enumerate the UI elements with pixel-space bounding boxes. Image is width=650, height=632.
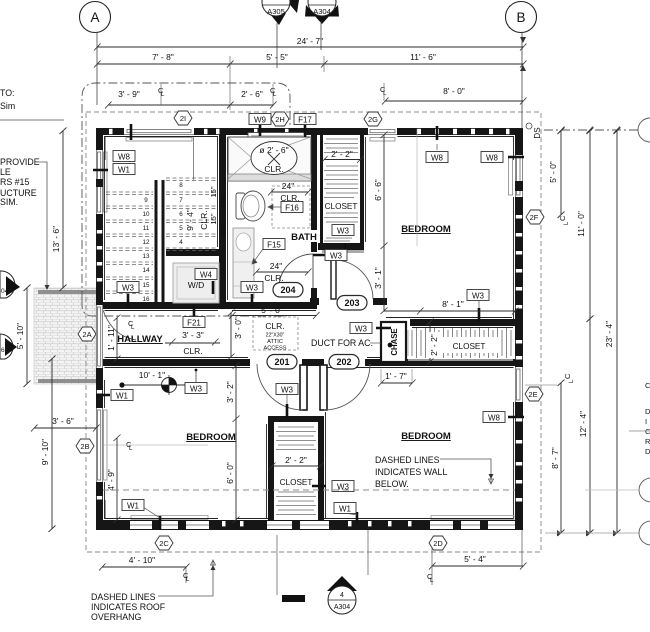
svg-text:16: 16 bbox=[142, 296, 150, 303]
svg-text:CLR.: CLR. bbox=[265, 321, 284, 331]
svg-text:15: 15 bbox=[142, 282, 150, 289]
svg-text:PROVIDE: PROVIDE bbox=[0, 157, 40, 167]
svg-text:8' - 1": 8' - 1" bbox=[442, 299, 464, 309]
svg-text:INDICATES ROOF: INDICATES ROOF bbox=[91, 602, 166, 612]
svg-text:W3: W3 bbox=[246, 284, 259, 293]
svg-text:2G: 2G bbox=[368, 115, 378, 124]
svg-text:W1: W1 bbox=[116, 392, 129, 401]
svg-text:3' - 3": 3' - 3" bbox=[182, 330, 204, 340]
svg-text:4: 4 bbox=[340, 592, 344, 599]
svg-text:DASHED LINES: DASHED LINES bbox=[91, 592, 156, 602]
svg-text:A304: A304 bbox=[313, 7, 331, 16]
svg-text:10: 10 bbox=[142, 211, 150, 218]
svg-text:W8: W8 bbox=[486, 154, 499, 163]
svg-text:W/D: W/D bbox=[188, 280, 205, 290]
svg-text:W3: W3 bbox=[330, 252, 343, 261]
svg-text:5: 5 bbox=[179, 225, 183, 232]
svg-text:BEDROOM: BEDROOM bbox=[401, 224, 451, 235]
svg-text:D: D bbox=[645, 447, 650, 456]
svg-text:4: 4 bbox=[179, 239, 183, 246]
svg-text:CLOSET: CLOSET bbox=[453, 342, 486, 351]
svg-text:INDICATES WALL: INDICATES WALL bbox=[375, 467, 447, 477]
svg-text:13' - 6": 13' - 6" bbox=[51, 226, 61, 252]
svg-text:6' - 6": 6' - 6" bbox=[373, 179, 383, 201]
svg-text:W8: W8 bbox=[118, 153, 131, 162]
svg-text:CLR.: CLR. bbox=[264, 164, 283, 174]
svg-text:D: D bbox=[645, 407, 650, 416]
svg-text:C: C bbox=[645, 381, 650, 390]
svg-text:LE: LE bbox=[0, 167, 11, 177]
svg-text:2' - 2": 2' - 2" bbox=[285, 455, 307, 465]
svg-text:7: 7 bbox=[179, 197, 183, 204]
svg-text:1' - 11": 1' - 11" bbox=[106, 325, 116, 351]
svg-text:F17: F17 bbox=[298, 116, 312, 125]
svg-text:W8: W8 bbox=[431, 154, 444, 163]
svg-text:11: 11 bbox=[143, 225, 150, 232]
svg-text:DUCT FOR AC.: DUCT FOR AC. bbox=[311, 338, 373, 348]
svg-text:A305: A305 bbox=[267, 7, 285, 16]
svg-text:W3: W3 bbox=[190, 385, 203, 394]
svg-text:3' - 2": 3' - 2" bbox=[225, 381, 235, 403]
svg-text:12: 12 bbox=[142, 239, 150, 246]
svg-text:W3: W3 bbox=[337, 227, 350, 236]
svg-text:Sim: Sim bbox=[0, 101, 15, 111]
svg-text:15": 15" bbox=[209, 186, 218, 197]
svg-text:2H: 2H bbox=[275, 115, 285, 124]
svg-text:2' - 2": 2' - 2" bbox=[331, 149, 353, 159]
svg-text:2C: 2C bbox=[159, 539, 169, 548]
svg-text:CLOSET: CLOSET bbox=[325, 202, 358, 211]
svg-text:OVERHANG: OVERHANG bbox=[91, 612, 142, 622]
svg-text:204: 204 bbox=[280, 285, 295, 295]
svg-text:4' - 10": 4' - 10" bbox=[129, 555, 155, 565]
svg-text:RS #15: RS #15 bbox=[0, 177, 29, 187]
svg-text:1' - 7": 1' - 7" bbox=[385, 371, 407, 381]
svg-text:F16: F16 bbox=[285, 204, 299, 213]
svg-text:W4: W4 bbox=[200, 271, 213, 280]
svg-text:R: R bbox=[645, 437, 650, 446]
svg-text:W3: W3 bbox=[472, 292, 485, 301]
svg-text:2E: 2E bbox=[528, 390, 537, 399]
svg-text:5' - 4": 5' - 4" bbox=[464, 554, 486, 564]
svg-text:C: C bbox=[645, 427, 650, 436]
svg-text:W3: W3 bbox=[355, 325, 368, 334]
svg-text:W1: W1 bbox=[118, 166, 131, 175]
svg-text:C: C bbox=[558, 215, 567, 221]
svg-text:MIN.: MIN. bbox=[219, 220, 228, 236]
svg-text:C: C bbox=[563, 373, 572, 379]
svg-text:F21: F21 bbox=[187, 319, 201, 328]
svg-text:24' - 7": 24' - 7" bbox=[297, 36, 323, 46]
svg-text:CHASE: CHASE bbox=[390, 328, 399, 355]
svg-text:BELOW.: BELOW. bbox=[375, 479, 409, 489]
svg-text:CLR.: CLR. bbox=[183, 346, 202, 356]
svg-text:23' - 4": 23' - 4" bbox=[604, 321, 614, 347]
svg-text:BEDROOM: BEDROOM bbox=[401, 431, 451, 442]
svg-text:4' - 9": 4' - 9" bbox=[106, 469, 116, 491]
svg-text:BEDROOM: BEDROOM bbox=[186, 432, 236, 443]
svg-text:11' - 6": 11' - 6" bbox=[410, 52, 436, 62]
svg-text:203: 203 bbox=[344, 298, 359, 308]
svg-text:CLR.: CLR. bbox=[199, 210, 209, 229]
svg-text:5' - 0": 5' - 0" bbox=[261, 305, 283, 315]
svg-text:W1: W1 bbox=[339, 505, 352, 514]
svg-text:2' - 2": 2' - 2" bbox=[429, 334, 439, 356]
svg-text:TO:: TO: bbox=[0, 88, 15, 98]
svg-text:14: 14 bbox=[142, 267, 150, 274]
svg-text:W3: W3 bbox=[122, 284, 135, 293]
svg-text:ATTIC: ATTIC bbox=[267, 339, 283, 345]
svg-text:22"X30": 22"X30" bbox=[266, 333, 285, 339]
svg-text:202: 202 bbox=[336, 357, 351, 367]
svg-text:I: I bbox=[645, 417, 647, 426]
svg-text:W9: W9 bbox=[254, 116, 267, 125]
svg-text:6: 6 bbox=[179, 211, 183, 218]
svg-text:3' - 1": 3' - 1" bbox=[373, 267, 383, 289]
svg-text:W3: W3 bbox=[281, 386, 294, 395]
svg-text:9: 9 bbox=[144, 197, 148, 204]
svg-text:8: 8 bbox=[179, 182, 183, 189]
svg-text:13: 13 bbox=[142, 253, 150, 260]
svg-text:SIM.: SIM. bbox=[0, 197, 18, 207]
svg-text:10' - 1": 10' - 1" bbox=[139, 370, 165, 380]
svg-text:HALLWAY: HALLWAY bbox=[117, 334, 163, 345]
svg-text:11' - 0": 11' - 0" bbox=[576, 211, 586, 237]
svg-text:8' - 0": 8' - 0" bbox=[443, 86, 465, 96]
svg-text:2B: 2B bbox=[80, 442, 89, 451]
svg-text:A304: A304 bbox=[334, 604, 350, 611]
svg-text:DASHED LINES: DASHED LINES bbox=[375, 455, 440, 465]
svg-text:04: 04 bbox=[1, 288, 9, 295]
svg-text:7' - 8": 7' - 8" bbox=[152, 52, 174, 62]
svg-text:9' - 10": 9' - 10" bbox=[40, 439, 50, 465]
svg-text:15": 15" bbox=[209, 213, 218, 224]
svg-text:6' - 0": 6' - 0" bbox=[225, 462, 235, 484]
svg-text:9' - 4": 9' - 4" bbox=[185, 209, 195, 231]
svg-text:3' - 0": 3' - 0" bbox=[233, 317, 243, 339]
svg-text:5' - 10": 5' - 10" bbox=[15, 323, 25, 349]
svg-text:5' - 5": 5' - 5" bbox=[266, 52, 288, 62]
svg-text:BATH: BATH bbox=[291, 232, 317, 243]
svg-text:6: 6 bbox=[1, 347, 5, 354]
svg-text:3' - 6": 3' - 6" bbox=[52, 416, 74, 426]
svg-text:MIN.: MIN. bbox=[219, 191, 228, 207]
svg-text:24": 24" bbox=[282, 181, 294, 191]
svg-text:DS: DS bbox=[533, 127, 542, 138]
svg-text:B: B bbox=[516, 10, 525, 25]
svg-text:CLOSET: CLOSET bbox=[280, 478, 313, 487]
svg-text:ACCESS: ACCESS bbox=[263, 346, 286, 352]
svg-text:2D: 2D bbox=[433, 539, 443, 548]
svg-text:24": 24" bbox=[270, 261, 282, 271]
svg-text:5' - 0": 5' - 0" bbox=[548, 161, 558, 183]
svg-text:2F: 2F bbox=[530, 213, 539, 222]
svg-text:F15: F15 bbox=[267, 241, 281, 250]
svg-text:201: 201 bbox=[274, 357, 289, 367]
svg-text:12' - 4": 12' - 4" bbox=[578, 411, 588, 437]
svg-text:2I: 2I bbox=[180, 114, 186, 123]
svg-text:A: A bbox=[90, 10, 99, 25]
svg-text:3' - 9": 3' - 9" bbox=[118, 89, 140, 99]
svg-text:ø 2' - 6": ø 2' - 6" bbox=[259, 145, 288, 155]
svg-text:8' - 7": 8' - 7" bbox=[550, 447, 560, 469]
svg-text:W1: W1 bbox=[127, 502, 140, 511]
svg-text:W8: W8 bbox=[488, 414, 501, 423]
svg-text:2' - 6": 2' - 6" bbox=[241, 89, 263, 99]
svg-text:2A: 2A bbox=[82, 330, 91, 339]
